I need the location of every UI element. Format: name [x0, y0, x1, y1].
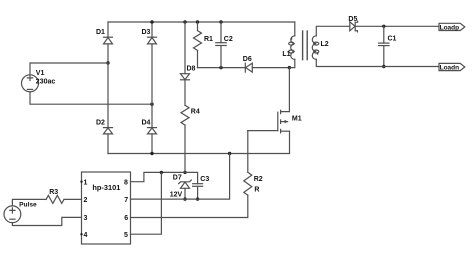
svg-text:R: R [254, 186, 259, 193]
junction D8 top [183, 20, 186, 23]
inductor L1 primary winding [289, 36, 295, 60]
wire R2 bottom to pin6 [131, 195, 248, 217]
wire node B to D4 [151, 104, 153, 127]
junction D7 bottom [183, 197, 186, 200]
svg-text:6: 6 [124, 215, 128, 222]
wire Pulse plus to R3 [12, 199, 46, 206]
wire D3 anode to node B [151, 44, 153, 104]
wire R1 top stub [197, 22, 199, 31]
wire D5 cathode to Loadp [355, 25, 439, 27]
inductor L2 secondary winding [312, 36, 319, 60]
junction C2 top [219, 20, 222, 23]
svg-text:C1: C1 [388, 36, 397, 43]
node A junction [106, 61, 109, 64]
junction C2 bottom [219, 66, 222, 69]
wire D6 anode to drain node [252, 67, 289, 69]
node top rail D3 junction [150, 20, 153, 23]
svg-text:R4: R4 [191, 108, 200, 115]
svg-text:12V: 12V [170, 192, 183, 199]
wire M1 source down [289, 131, 291, 153]
wire gate to R2 [247, 131, 249, 173]
svg-text:Loadp: Loadp [440, 25, 460, 32]
wire secondary bottom [316, 59, 439, 66]
wire M1 gate [248, 130, 278, 132]
wire C2 bottom stub [220, 46, 222, 68]
junction drain node [288, 66, 291, 69]
junction C1 bottom [382, 65, 385, 68]
diode D2 [104, 128, 113, 134]
svg-text:V1: V1 [36, 70, 45, 77]
junction C3 bottom [196, 197, 199, 200]
wire C2 top stub [220, 22, 222, 43]
svg-text:C2: C2 [224, 36, 233, 43]
svg-text:8: 8 [124, 180, 128, 187]
wire D8 to R4 [184, 80, 186, 106]
wire pin5 to Vcc link [131, 172, 162, 234]
resistor R2 [244, 172, 252, 195]
junction Vcc D7 top [183, 171, 186, 174]
source V1 [22, 75, 39, 92]
diode D8 [181, 74, 190, 80]
svg-text:D4: D4 [142, 119, 151, 126]
wire node A to D2 [107, 63, 109, 128]
diode D1 [104, 37, 113, 44]
node B junction [150, 103, 153, 106]
polarity dot L1 [291, 38, 293, 40]
wire secondary top [316, 26, 350, 36]
svg-text:D8: D8 [187, 65, 196, 72]
wire C1 bottom stub [383, 46, 385, 67]
wire C1 top stub [383, 26, 385, 43]
svg-text:7: 7 [124, 197, 128, 204]
wire V1 minus to D4 node [30, 92, 152, 104]
svg-text:Loadn: Loadn [440, 65, 460, 72]
junction C1 top [382, 25, 385, 28]
svg-text:3: 3 [84, 215, 88, 222]
resistor R3 [46, 195, 64, 203]
svg-text:M1: M1 [292, 116, 302, 123]
wire ground rail [108, 153, 290, 155]
diode D3 [148, 37, 157, 44]
svg-text:L2: L2 [321, 41, 329, 48]
capacitor C2 [216, 43, 226, 46]
svg-text:hp-3101: hp-3101 [92, 183, 120, 192]
wire D3 column top [151, 22, 153, 37]
source Pulse [4, 206, 21, 223]
pin 4 dot [80, 233, 82, 235]
IC U1 hp-3101 box [82, 172, 131, 244]
svg-text:L1: L1 [282, 51, 290, 58]
wire Pulse minus to pin3 [12, 217, 81, 225]
wire D2 anode to ground rail [107, 134, 109, 154]
resistor R1 [194, 31, 202, 51]
polarity dot L2 [317, 53, 319, 55]
svg-text:1: 1 [84, 180, 88, 187]
svg-text:D6: D6 [243, 56, 252, 63]
port Loadn flag [439, 63, 465, 70]
wire D7 anode down [184, 188, 186, 199]
wire Vcc to C3 [185, 172, 198, 183]
resistor R4 [181, 105, 189, 125]
wire top DC+ rail [108, 21, 295, 23]
svg-text:D2: D2 [96, 119, 105, 126]
wire pin7 ground [131, 154, 230, 200]
wire primary top [294, 22, 296, 36]
wire D8 column [184, 22, 186, 74]
svg-text:2: 2 [84, 197, 88, 204]
wire D1 anode to node A [107, 44, 109, 63]
wire C3 bottom [197, 186, 199, 199]
junction pin8 node [160, 171, 163, 174]
transistor M1 [278, 110, 290, 133]
junction sense tap [228, 152, 231, 155]
wire D4 anode to ground rail [151, 134, 153, 154]
wire pin8 to Vcc [131, 172, 186, 181]
diode D5 schottky [350, 21, 358, 32]
wire primary bottom [289, 59, 294, 67]
svg-text:R1: R1 [204, 36, 213, 43]
wire drain node to M1 drain [281, 68, 290, 112]
svg-text:D1: D1 [96, 29, 105, 36]
pin 1 dot [80, 181, 82, 183]
svg-text:R3: R3 [49, 189, 58, 196]
junction R1 top [196, 20, 199, 23]
svg-text:D5: D5 [348, 16, 357, 23]
transformer core [303, 31, 308, 60]
wire R3 to pin2 [64, 198, 82, 200]
svg-text:4: 4 [84, 232, 88, 239]
svg-text:D7: D7 [173, 175, 182, 182]
junction D4 ground [150, 152, 153, 155]
svg-text:C3: C3 [200, 176, 209, 183]
wire V1 plus to node A [30, 63, 108, 75]
wire D1 column top [107, 22, 109, 37]
capacitor C3 [193, 184, 203, 187]
svg-text:230ac: 230ac [36, 78, 56, 85]
diode D6 [245, 63, 252, 72]
diode D4 [148, 128, 157, 134]
wire snubber bottom [198, 67, 246, 69]
svg-text:D3: D3 [142, 29, 151, 36]
capacitor C1 [379, 43, 389, 46]
wire R1 bottom [197, 50, 199, 67]
svg-text:5: 5 [124, 232, 128, 239]
svg-text:Pulse: Pulse [19, 202, 37, 209]
port Loadp flag [439, 23, 465, 30]
wire R4 to Vcc node [184, 125, 186, 172]
svg-text:R2: R2 [254, 176, 263, 183]
zener D7 [179, 180, 192, 188]
